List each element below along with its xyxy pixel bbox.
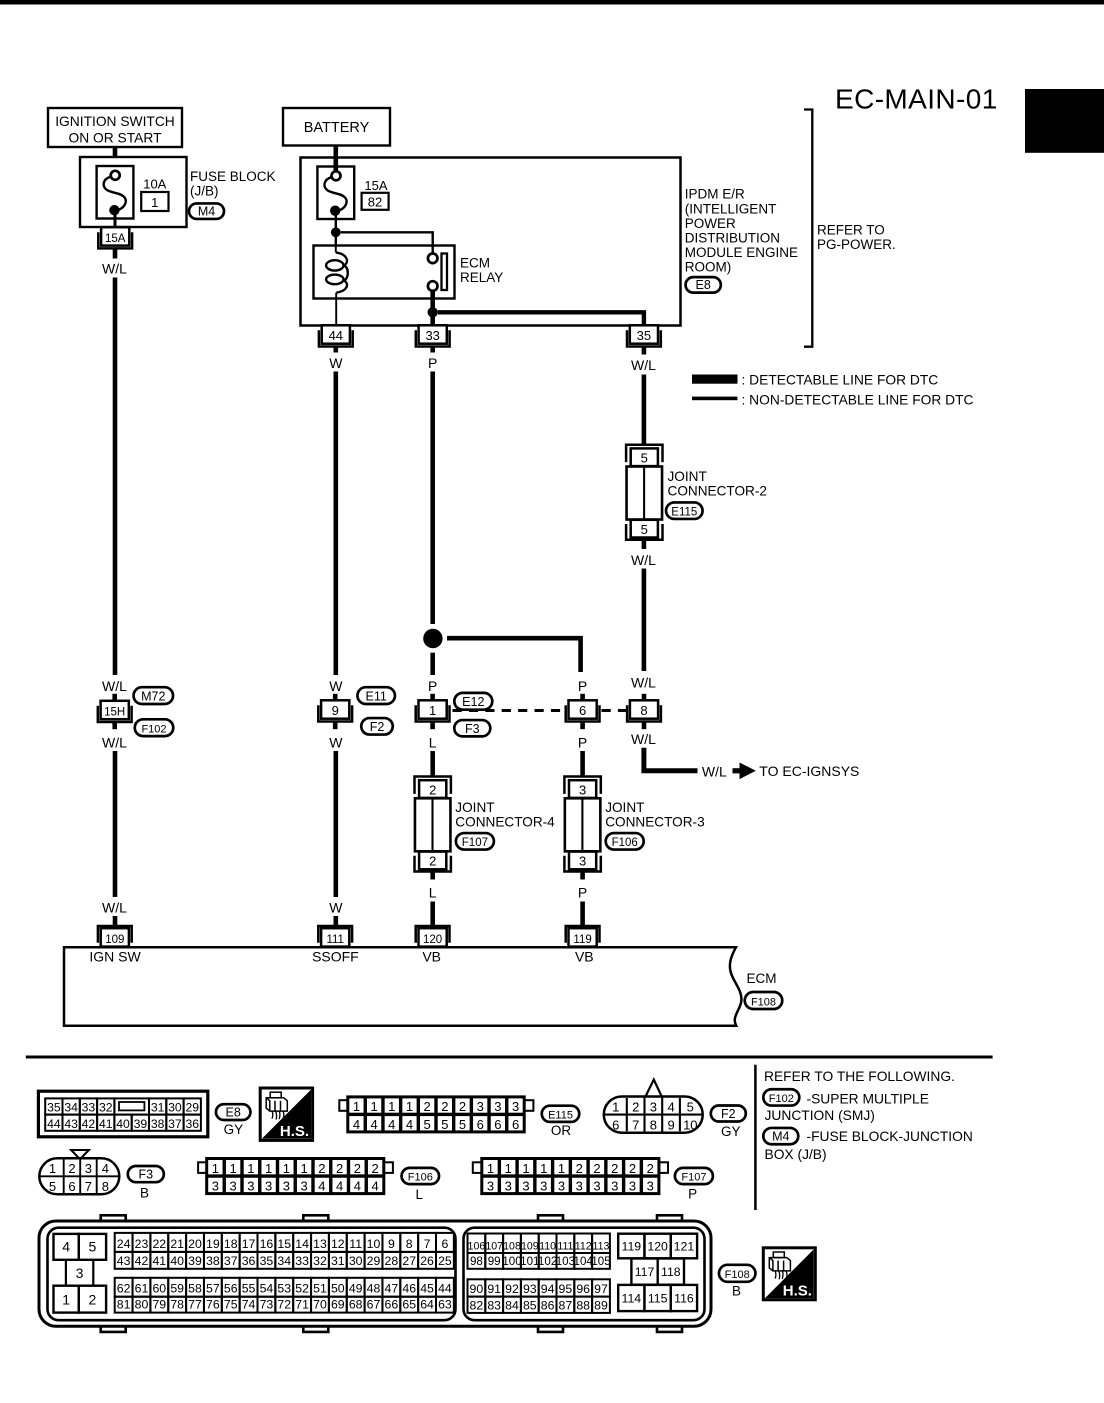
- svg-text:W/L: W/L: [102, 900, 127, 916]
- svg-text:9: 9: [667, 1118, 674, 1133]
- connector oval F107 (pinout): [675, 1168, 713, 1184]
- ECM pin 119: [566, 926, 600, 947]
- svg-text:15A: 15A: [105, 233, 126, 245]
- fuse number box 1: [141, 192, 168, 211]
- svg-text:96: 96: [576, 1282, 590, 1296]
- svg-text:W/L: W/L: [702, 764, 727, 780]
- ignition switch box: [48, 108, 182, 147]
- connector oval F108 (pinout): [719, 1265, 756, 1282]
- svg-text:2: 2: [318, 1161, 325, 1176]
- svg-text:TO EC-IGNSYS: TO EC-IGNSYS: [759, 763, 859, 779]
- svg-text:H.S.: H.S.: [783, 1283, 812, 1300]
- svg-text:B: B: [140, 1186, 149, 1201]
- svg-text:2: 2: [459, 1099, 466, 1114]
- svg-text:2: 2: [336, 1161, 343, 1176]
- ECM 121-pin connector shell: [39, 1215, 711, 1332]
- in-line connector 9: [318, 700, 352, 721]
- connector oval F102: [135, 719, 174, 736]
- stub below joint connector 2: [642, 541, 647, 549]
- label JOINT CONNECTOR-3: [605, 800, 704, 830]
- svg-text:115: 115: [648, 1292, 668, 1306]
- junction dot P-split: [423, 629, 442, 648]
- svg-text:6: 6: [494, 1117, 501, 1132]
- svg-text:43: 43: [64, 1117, 78, 1131]
- svg-text:1: 1: [612, 1099, 619, 1114]
- svg-text:5: 5: [687, 1099, 694, 1114]
- svg-text:108: 108: [503, 1240, 521, 1252]
- svg-text:FUSE BLOCK: FUSE BLOCK: [190, 169, 276, 184]
- svg-text:ECM: ECM: [460, 256, 490, 271]
- svg-text:1: 1: [283, 1161, 290, 1176]
- svg-text:4: 4: [372, 1179, 379, 1194]
- svg-text:24: 24: [117, 1237, 131, 1251]
- svg-text:27: 27: [402, 1254, 416, 1268]
- svg-text:W: W: [329, 355, 343, 371]
- svg-text:8: 8: [640, 703, 647, 718]
- svg-text:1: 1: [540, 1161, 547, 1176]
- svg-text:3: 3: [230, 1179, 237, 1194]
- svg-text:REFER TO THE FOLLOWING.: REFER TO THE FOLLOWING.: [764, 1069, 955, 1084]
- svg-text:15H: 15H: [104, 706, 125, 718]
- svg-text:IGN SW: IGN SW: [89, 949, 141, 965]
- svg-text:6: 6: [477, 1117, 484, 1132]
- wire fuse to block bottom: [114, 213, 117, 228]
- svg-text:114: 114: [622, 1292, 642, 1306]
- svg-text:2: 2: [429, 782, 436, 797]
- fuse 10A (left): [97, 166, 134, 219]
- svg-text:8: 8: [406, 1237, 413, 1251]
- svg-text:39: 39: [134, 1117, 148, 1131]
- svg-text:44: 44: [438, 1282, 452, 1296]
- svg-text:3: 3: [579, 854, 586, 869]
- svg-text:1: 1: [265, 1161, 272, 1176]
- svg-text:80: 80: [135, 1298, 149, 1312]
- wire P down from 33 to junction: [430, 372, 435, 625]
- svg-text:32: 32: [99, 1101, 113, 1115]
- legend thin bar: [692, 397, 738, 401]
- connector 15A (fuse block output): [98, 227, 132, 248]
- wire W/L from 8 to EC-IGNSYS elbow: [644, 748, 698, 771]
- svg-text:1: 1: [558, 1161, 565, 1176]
- svg-text:6: 6: [442, 1237, 449, 1251]
- svg-text:3: 3: [505, 1179, 512, 1194]
- svg-text:W/L: W/L: [631, 552, 656, 568]
- svg-text:67: 67: [367, 1298, 381, 1312]
- svg-text:2: 2: [89, 1291, 97, 1307]
- IPDM label text: [685, 187, 798, 275]
- stub below joint connector 3: [580, 872, 585, 879]
- svg-text:31: 31: [331, 1254, 345, 1268]
- svg-text:91: 91: [487, 1282, 501, 1296]
- svg-text:W/L: W/L: [631, 731, 656, 747]
- svg-text:BOX (J/B): BOX (J/B): [765, 1147, 827, 1162]
- svg-text:3: 3: [283, 1179, 290, 1194]
- wire W/L down to connector 8: [642, 569, 647, 672]
- svg-text:5: 5: [641, 451, 648, 466]
- wire L to ECM pin 120: [430, 902, 435, 926]
- svg-text:3: 3: [265, 1179, 272, 1194]
- svg-text:F3: F3: [139, 1168, 154, 1182]
- svg-text:43: 43: [117, 1254, 131, 1268]
- svg-text:64: 64: [420, 1298, 434, 1312]
- ECM relay box: [314, 246, 455, 299]
- svg-text:22: 22: [152, 1237, 166, 1251]
- svg-text:1: 1: [62, 1291, 70, 1307]
- svg-text:ON OR START: ON OR START: [68, 131, 162, 146]
- svg-text:3: 3: [76, 1265, 84, 1281]
- svg-text:1: 1: [301, 1161, 308, 1176]
- fuse 15A (IPDM): [317, 167, 354, 220]
- wire stub below 15A: [113, 249, 118, 259]
- svg-text:32: 32: [313, 1254, 327, 1268]
- svg-text:3: 3: [522, 1179, 529, 1194]
- svg-text:119: 119: [622, 1239, 642, 1253]
- svg-text:5: 5: [459, 1117, 466, 1132]
- svg-text:74: 74: [242, 1298, 256, 1312]
- wire P junction to column 6: [447, 638, 581, 672]
- svg-text:DISTRIBUTION: DISTRIBUTION: [685, 230, 780, 245]
- svg-text:55: 55: [242, 1282, 256, 1296]
- svg-text:MODULE ENGINE: MODULE ENGINE: [685, 245, 798, 260]
- svg-text:7: 7: [85, 1179, 92, 1194]
- svg-text:113: 113: [593, 1240, 610, 1252]
- svg-text:14: 14: [295, 1237, 309, 1251]
- svg-text:110: 110: [539, 1240, 556, 1252]
- wire P below junction: [430, 653, 435, 675]
- svg-text:CONNECTOR-4: CONNECTOR-4: [455, 815, 555, 830]
- svg-text:10A: 10A: [143, 177, 166, 192]
- wire L from 1 to joint connector 4: [430, 751, 435, 776]
- svg-text:4: 4: [354, 1179, 361, 1194]
- label ECM RELAY: [460, 256, 503, 286]
- svg-text:7: 7: [424, 1237, 431, 1251]
- svg-text:112: 112: [575, 1240, 592, 1252]
- svg-text:73: 73: [260, 1298, 274, 1312]
- connector oval F106 (jc3): [606, 833, 644, 850]
- svg-text:: DETECTABLE LINE FOR DTC: : DETECTABLE LINE FOR DTC: [742, 372, 939, 387]
- svg-text:38: 38: [206, 1254, 220, 1268]
- svg-text:37: 37: [224, 1254, 238, 1268]
- wire battery to IPDM: [333, 146, 338, 173]
- svg-text:46: 46: [402, 1282, 416, 1296]
- svg-text:109: 109: [521, 1240, 539, 1252]
- svg-text:62: 62: [117, 1282, 131, 1296]
- svg-text:GY: GY: [224, 1122, 244, 1137]
- svg-text:1: 1: [406, 1099, 413, 1114]
- in-line connector 8: [627, 700, 661, 721]
- H.S. view logo (row 1): [260, 1088, 312, 1140]
- svg-text:2: 2: [68, 1161, 75, 1176]
- svg-text:3: 3: [576, 1179, 583, 1194]
- svg-text:5: 5: [641, 522, 648, 537]
- svg-text:120: 120: [647, 1239, 668, 1253]
- connector oval M4 (refer): [763, 1128, 798, 1144]
- junction dot (relay output): [428, 307, 438, 317]
- F106 connector pinout grid: [198, 1158, 393, 1194]
- svg-text:H.S.: H.S.: [280, 1123, 309, 1140]
- svg-text:W/L: W/L: [102, 678, 127, 694]
- svg-text:BATTERY: BATTERY: [304, 120, 370, 136]
- svg-text:L: L: [429, 885, 437, 901]
- connector oval E115 (jc2): [666, 502, 703, 519]
- svg-text:3: 3: [247, 1179, 254, 1194]
- connector oval F3 (pinout): [128, 1166, 164, 1182]
- right module pins 114-121 block: [618, 1234, 697, 1311]
- svg-text:29: 29: [367, 1254, 381, 1268]
- svg-text:93: 93: [523, 1282, 537, 1296]
- svg-text:W/L: W/L: [631, 357, 656, 373]
- svg-text:90: 90: [470, 1282, 484, 1296]
- in-line connector 1: [416, 700, 450, 721]
- svg-text:78: 78: [170, 1298, 184, 1312]
- svg-text:F108: F108: [751, 996, 776, 1008]
- wire W down from 44: [333, 372, 338, 676]
- svg-text:IGNITION SWITCH: IGNITION SWITCH: [55, 114, 175, 129]
- label JOINT CONNECTOR-4: [455, 800, 555, 830]
- divider line (refer block): [754, 1065, 757, 1210]
- connector oval E8: [686, 277, 721, 293]
- connector oval E115 (pinout): [542, 1106, 580, 1122]
- svg-text:F3: F3: [465, 722, 480, 736]
- svg-text:37: 37: [168, 1117, 182, 1131]
- label REFER TO PG-POWER: [817, 223, 896, 252]
- svg-text:12: 12: [331, 1237, 345, 1251]
- svg-text:3: 3: [558, 1179, 565, 1194]
- svg-text:F2: F2: [721, 1107, 736, 1121]
- E115 connector pinout grid: [339, 1097, 533, 1132]
- battery box: [283, 108, 390, 146]
- left module pin grid: [115, 1233, 454, 1313]
- svg-text:36: 36: [242, 1254, 256, 1268]
- svg-text:ECM: ECM: [747, 971, 777, 986]
- svg-text:82: 82: [368, 195, 382, 210]
- svg-text:4: 4: [353, 1117, 360, 1132]
- ECM pin 109: [98, 926, 132, 947]
- connector oval F2 (pinout): [711, 1106, 746, 1122]
- IPDM pin 33: [416, 325, 450, 346]
- label FUSE BLOCK (J/B): [190, 169, 276, 199]
- svg-text:IPDM E/R: IPDM E/R: [685, 187, 745, 202]
- svg-text:117: 117: [635, 1265, 655, 1279]
- svg-text:99: 99: [488, 1255, 501, 1268]
- svg-text:3: 3: [85, 1161, 92, 1176]
- svg-text:3: 3: [487, 1179, 494, 1194]
- svg-text:111: 111: [557, 1240, 573, 1252]
- svg-text:10: 10: [367, 1237, 381, 1251]
- svg-text:P: P: [428, 355, 437, 371]
- svg-text:2: 2: [354, 1161, 361, 1176]
- svg-text:44: 44: [329, 328, 343, 343]
- svg-text:3: 3: [593, 1179, 600, 1194]
- F107 connector pinout grid: [473, 1158, 668, 1194]
- wire P to ECM pin 119: [580, 902, 585, 926]
- svg-text:3: 3: [540, 1179, 547, 1194]
- svg-text:1: 1: [151, 195, 158, 210]
- wire W/L from 35 to joint connector 2: [642, 375, 647, 445]
- svg-text:E115: E115: [548, 1109, 573, 1121]
- IPDM pin 35: [627, 325, 661, 346]
- svg-text:E12: E12: [462, 695, 484, 709]
- svg-text:51: 51: [313, 1282, 327, 1296]
- stub below 44: [333, 347, 338, 353]
- svg-text:1: 1: [388, 1099, 395, 1114]
- svg-text:59: 59: [170, 1282, 184, 1296]
- svg-text:87: 87: [559, 1298, 573, 1312]
- svg-text:1: 1: [212, 1161, 219, 1176]
- wire P from 6 to joint connector 3: [580, 751, 585, 776]
- svg-text:54: 54: [260, 1282, 274, 1296]
- bracket refer-to: [804, 110, 812, 347]
- svg-text:6: 6: [68, 1179, 75, 1194]
- svg-text:36: 36: [185, 1117, 199, 1131]
- stub below 33: [430, 347, 435, 353]
- svg-text:F106: F106: [408, 1172, 433, 1184]
- svg-text:4: 4: [667, 1099, 674, 1114]
- label FUSE BLOCK JUNCTION BOX: [765, 1129, 973, 1162]
- stub below 35: [642, 347, 647, 355]
- svg-text:61: 61: [135, 1282, 149, 1296]
- svg-text:18: 18: [224, 1237, 238, 1251]
- svg-text:F2: F2: [370, 720, 385, 734]
- svg-text:84: 84: [505, 1298, 519, 1312]
- svg-text:116: 116: [674, 1292, 694, 1306]
- svg-text:33: 33: [295, 1254, 309, 1268]
- svg-text:20: 20: [188, 1237, 202, 1251]
- left pilot block pins 1-5: [54, 1234, 107, 1313]
- connector oval M4: [189, 203, 224, 219]
- svg-text:107: 107: [485, 1240, 503, 1252]
- svg-text:101: 101: [520, 1255, 539, 1268]
- svg-text:F102: F102: [769, 1093, 794, 1105]
- svg-text:82: 82: [470, 1298, 484, 1312]
- svg-text:P: P: [688, 1186, 697, 1201]
- svg-text:9: 9: [388, 1237, 395, 1251]
- svg-text:VB: VB: [575, 949, 594, 965]
- wire relay output: [430, 291, 435, 325]
- svg-text:119: 119: [573, 934, 591, 946]
- svg-text:33: 33: [82, 1101, 96, 1115]
- svg-text:6: 6: [579, 703, 586, 718]
- svg-text:2: 2: [611, 1161, 618, 1176]
- E8 connector pinout grid: [38, 1091, 207, 1137]
- arrow to EC-IGNSYS: [733, 763, 756, 780]
- svg-text:REFER TO: REFER TO: [817, 223, 885, 238]
- H.S. view logo (ECM connector): [763, 1248, 815, 1300]
- svg-text:105: 105: [591, 1255, 610, 1268]
- dashed link 1 to 6: [453, 709, 564, 712]
- svg-text:45: 45: [420, 1282, 434, 1296]
- joint connector-3 (F106): [564, 777, 600, 872]
- svg-text:79: 79: [152, 1298, 166, 1312]
- svg-text:M4: M4: [198, 204, 215, 218]
- svg-text:23: 23: [135, 1237, 149, 1251]
- svg-text:POWER: POWER: [685, 216, 736, 231]
- svg-text:JOINT: JOINT: [605, 800, 644, 815]
- fuse block (J/B) box: [80, 157, 187, 227]
- svg-text:58: 58: [188, 1282, 202, 1296]
- svg-text:5: 5: [89, 1239, 97, 1255]
- relay coil: [326, 246, 348, 326]
- svg-text:9: 9: [332, 703, 339, 718]
- svg-text:2: 2: [629, 1161, 636, 1176]
- svg-text:3: 3: [647, 1179, 654, 1194]
- svg-text:M4: M4: [772, 1130, 789, 1144]
- svg-text:W/L: W/L: [102, 261, 127, 277]
- page corner black index box: [1025, 89, 1104, 153]
- svg-text:120: 120: [423, 934, 442, 946]
- svg-text:VB: VB: [422, 949, 441, 965]
- svg-text:W: W: [329, 734, 343, 750]
- svg-text:103: 103: [556, 1255, 575, 1268]
- connector oval F107 (jc4): [456, 833, 494, 850]
- svg-text:E8: E8: [696, 278, 711, 292]
- svg-text:E8: E8: [226, 1105, 241, 1119]
- svg-text:68: 68: [349, 1298, 363, 1312]
- svg-text:2: 2: [429, 854, 436, 869]
- svg-text:P: P: [578, 885, 587, 901]
- ECM connector left module: [48, 1228, 456, 1321]
- svg-text:4: 4: [62, 1239, 70, 1255]
- svg-text:83: 83: [487, 1298, 501, 1312]
- svg-text:JOINT: JOINT: [455, 800, 494, 815]
- svg-text:1: 1: [353, 1099, 360, 1114]
- svg-text:SSOFF: SSOFF: [312, 949, 359, 965]
- svg-text:(J/B): (J/B): [190, 184, 219, 199]
- svg-text:4: 4: [388, 1117, 395, 1132]
- svg-text:F107: F107: [681, 1172, 706, 1184]
- F2 connector pinout: [604, 1080, 703, 1133]
- svg-text:JUNCTION (SMJ): JUNCTION (SMJ): [765, 1108, 875, 1123]
- svg-text:52: 52: [295, 1282, 309, 1296]
- svg-text:81: 81: [117, 1298, 131, 1312]
- svg-text:ROOM): ROOM): [685, 259, 732, 274]
- svg-text:8: 8: [102, 1179, 109, 1194]
- svg-text:26: 26: [420, 1254, 434, 1268]
- svg-text:: NON-DETECTABLE LINE FOR DTC: : NON-DETECTABLE LINE FOR DTC: [742, 392, 974, 407]
- relay contact bar: [442, 254, 448, 291]
- connector oval F102 (refer): [763, 1089, 799, 1105]
- svg-text:OR: OR: [551, 1123, 572, 1138]
- svg-text:2: 2: [576, 1161, 583, 1176]
- ECM pin 111: [318, 926, 352, 947]
- svg-text:95: 95: [559, 1282, 573, 1296]
- svg-text:W/L: W/L: [102, 734, 127, 750]
- section separator line: [26, 1056, 993, 1059]
- svg-text:100: 100: [502, 1255, 521, 1268]
- svg-text:4: 4: [318, 1179, 325, 1194]
- svg-text:JOINT: JOINT: [668, 469, 707, 484]
- svg-text:41: 41: [152, 1254, 166, 1268]
- svg-text:7: 7: [632, 1118, 639, 1133]
- svg-text:E11: E11: [366, 689, 387, 703]
- svg-text:L: L: [415, 1187, 423, 1202]
- svg-text:F102: F102: [141, 724, 166, 736]
- wire W/L down to ECM pin 109: [113, 751, 118, 897]
- svg-text:CONNECTOR-3: CONNECTOR-3: [605, 815, 704, 830]
- svg-text:5: 5: [424, 1117, 431, 1132]
- label JOINT CONNECTOR-2: [668, 469, 767, 499]
- svg-text:19: 19: [206, 1237, 220, 1251]
- svg-text:4: 4: [102, 1161, 109, 1176]
- wire junction to pin 35: [438, 312, 644, 325]
- connector oval M72: [134, 687, 174, 704]
- svg-text:25: 25: [438, 1254, 452, 1268]
- svg-text:50: 50: [331, 1282, 345, 1296]
- svg-text:34: 34: [64, 1101, 78, 1115]
- svg-text:1: 1: [49, 1161, 56, 1176]
- svg-text:35: 35: [260, 1254, 274, 1268]
- svg-text:RELAY: RELAY: [460, 270, 503, 285]
